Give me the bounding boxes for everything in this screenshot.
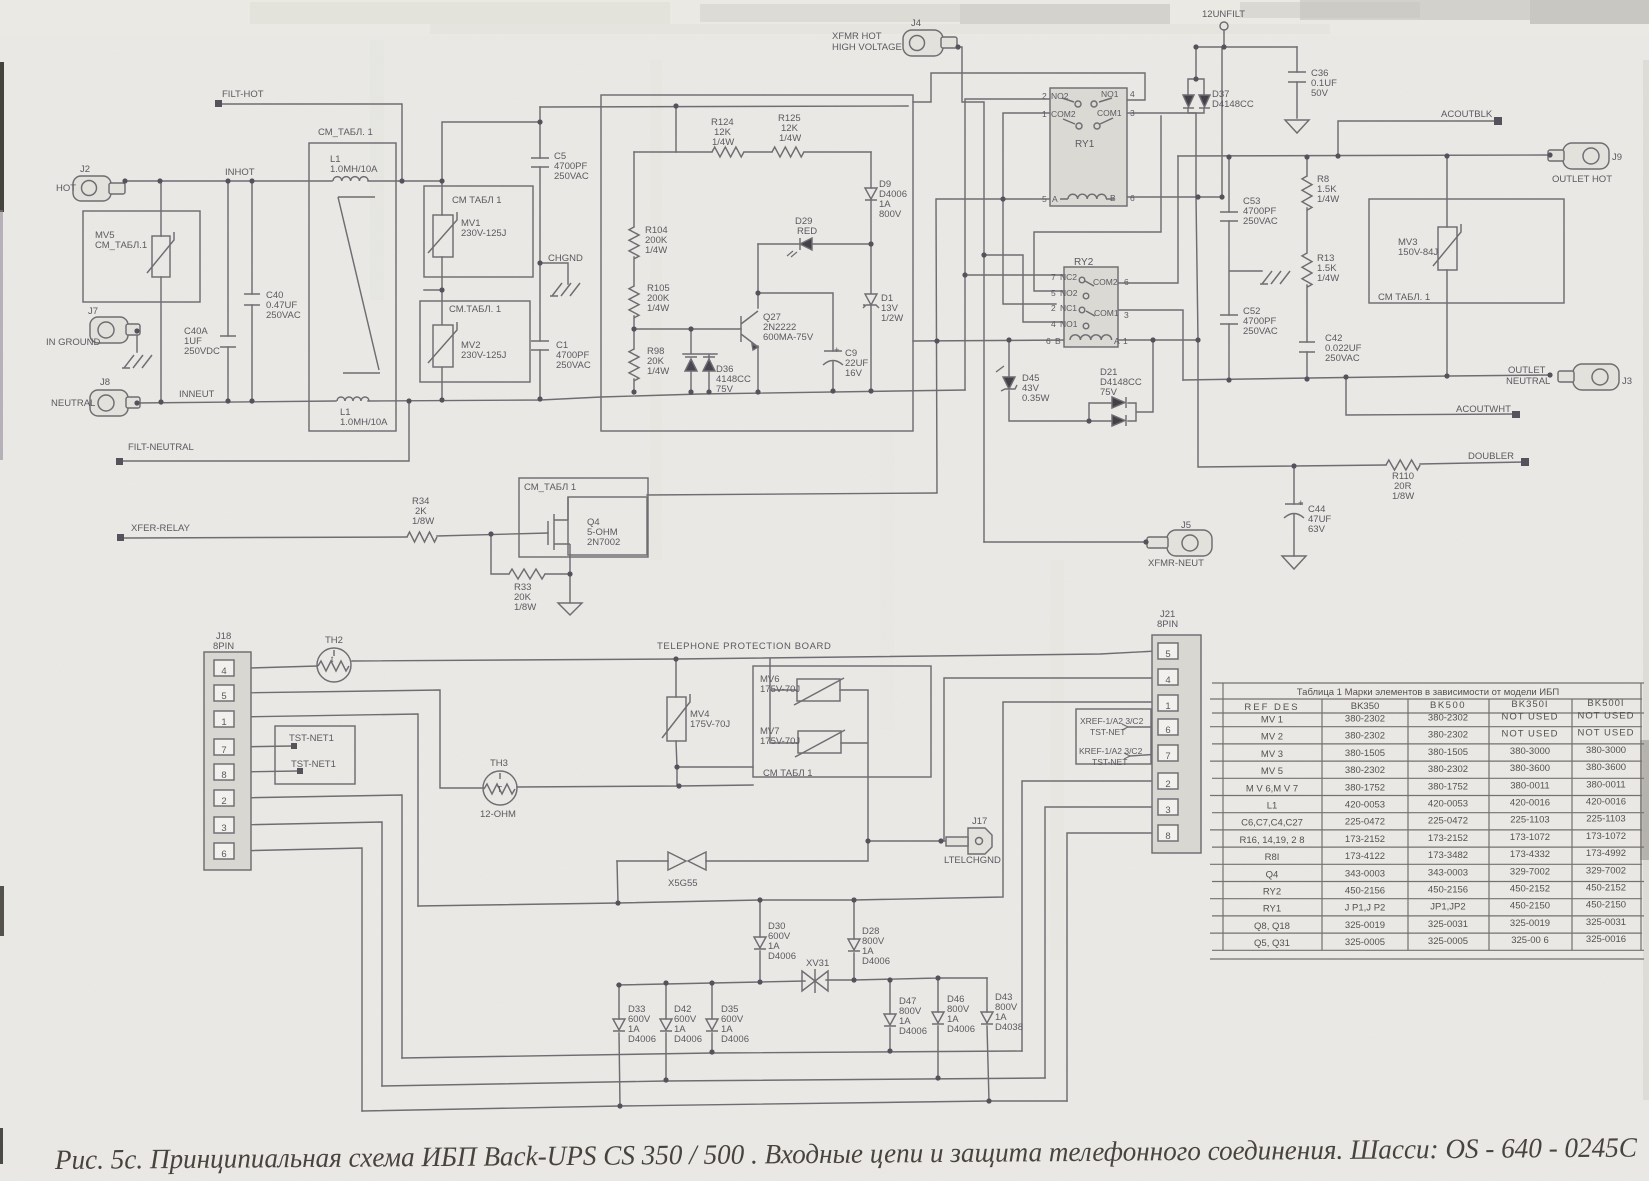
svg-text:Q8, Q18: Q8, Q18 xyxy=(1254,921,1290,932)
svg-text:KREF-1/A2 3/C2: KREF-1/A2 3/C2 xyxy=(1079,746,1143,756)
svg-text:450-2156: 450-2156 xyxy=(1345,886,1385,897)
svg-text:420-0016: 420-0016 xyxy=(1586,797,1626,808)
svg-text:380-3600: 380-3600 xyxy=(1510,763,1550,774)
svg-text:СМ_ТАБЛ 1: СМ_ТАБЛ 1 xyxy=(524,482,576,493)
svg-text:NC2: NC2 xyxy=(1060,272,1077,282)
svg-text:600MA-75V: 600MA-75V xyxy=(763,332,814,343)
svg-text:380-2302: 380-2302 xyxy=(1428,730,1468,741)
svg-text:380-1505: 380-1505 xyxy=(1428,747,1468,758)
svg-text:1.0MH/10A: 1.0MH/10A xyxy=(340,417,388,428)
svg-text:L1: L1 xyxy=(1267,801,1278,812)
svg-text:230V-125J: 230V-125J xyxy=(461,228,507,239)
svg-text:СМ_ТАБЛ.1: СМ_ТАБЛ.1 xyxy=(95,240,147,251)
svg-text:NOT USED: NOT USED xyxy=(1502,729,1559,740)
svg-text:RED: RED xyxy=(797,226,817,237)
svg-text:СМ ТАБЛ 1: СМ ТАБЛ 1 xyxy=(763,768,813,779)
svg-text:IN GROUND: IN GROUND xyxy=(46,337,101,348)
svg-text:4: 4 xyxy=(1051,319,1056,329)
svg-text:A: A xyxy=(1114,336,1120,346)
svg-text:380-3000: 380-3000 xyxy=(1586,745,1626,756)
svg-text:ACOUTBLK: ACOUTBLK xyxy=(1441,109,1493,120)
svg-text:0.35W: 0.35W xyxy=(1022,393,1049,404)
svg-text:B: B xyxy=(1055,336,1061,346)
svg-text:TH3: TH3 xyxy=(490,758,508,769)
svg-text:325-0005: 325-0005 xyxy=(1345,937,1385,948)
svg-text:1: 1 xyxy=(1123,336,1128,346)
svg-text:M V 6,M V 7: M V 6,M V 7 xyxy=(1246,783,1298,794)
svg-text:230V-125J: 230V-125J xyxy=(461,350,507,361)
svg-text:C6,C7,C4,C27: C6,C7,C4,C27 xyxy=(1241,818,1303,829)
svg-text:HOT: HOT xyxy=(56,183,76,194)
svg-text:8: 8 xyxy=(221,770,226,781)
svg-text:3: 3 xyxy=(1165,805,1170,816)
svg-text:NOT USED: NOT USED xyxy=(1502,712,1559,723)
svg-text:СМ.ТАБЛ. 1: СМ.ТАБЛ. 1 xyxy=(449,304,501,315)
svg-text:450-2156: 450-2156 xyxy=(1428,885,1468,896)
svg-text:1/4W: 1/4W xyxy=(647,303,669,314)
svg-text:СМ ТАБЛ. 1: СМ ТАБЛ. 1 xyxy=(1378,292,1430,303)
svg-text:75V: 75V xyxy=(1100,387,1118,398)
svg-text:BK350I: BK350I xyxy=(1511,699,1548,710)
svg-text:380-0011: 380-0011 xyxy=(1586,779,1625,790)
svg-text:2N7002: 2N7002 xyxy=(587,537,620,548)
svg-text:250VAC: 250VAC xyxy=(554,171,589,182)
svg-text:1: 1 xyxy=(1042,109,1047,119)
svg-text:2: 2 xyxy=(1051,303,1056,313)
svg-text:173-3482: 173-3482 xyxy=(1428,850,1468,861)
svg-text:7: 7 xyxy=(1051,272,1056,282)
svg-text:175V-70J: 175V-70J xyxy=(760,684,800,695)
svg-text:250VAC: 250VAC xyxy=(1243,216,1278,227)
svg-text:R8I: R8I xyxy=(1265,852,1280,863)
svg-text:XREF-1/A2 3/C2: XREF-1/A2 3/C2 xyxy=(1080,716,1144,726)
svg-text:325-0016: 325-0016 xyxy=(1586,934,1626,945)
svg-text:250VAC: 250VAC xyxy=(266,310,301,321)
svg-text:173-4122: 173-4122 xyxy=(1345,851,1385,862)
svg-text:450-2152: 450-2152 xyxy=(1586,883,1626,894)
svg-text:450-2150: 450-2150 xyxy=(1586,900,1626,911)
svg-text:J2: J2 xyxy=(80,164,90,175)
svg-text:D4006: D4006 xyxy=(674,1034,702,1045)
svg-text:NOT USED: NOT USED xyxy=(1578,728,1635,739)
svg-text:T: T xyxy=(497,784,502,794)
svg-text:8PIN: 8PIN xyxy=(1157,619,1178,630)
svg-text:325-0019: 325-0019 xyxy=(1510,918,1550,929)
svg-text:REF DES: REF DES xyxy=(1244,702,1299,713)
svg-text:J5: J5 xyxy=(1181,520,1191,531)
svg-text:XV31: XV31 xyxy=(806,958,829,969)
svg-text:1/4W: 1/4W xyxy=(779,133,801,144)
svg-text:225-0472: 225-0472 xyxy=(1345,817,1385,828)
svg-text:3: 3 xyxy=(1124,310,1129,320)
svg-text:XFER-RELAY: XFER-RELAY xyxy=(131,523,191,534)
svg-text:6: 6 xyxy=(1165,725,1170,736)
svg-text:Q5, Q31: Q5, Q31 xyxy=(1254,938,1290,949)
svg-text:12UNFILT: 12UNFILT xyxy=(1202,9,1245,20)
svg-text:6: 6 xyxy=(221,849,226,860)
svg-text:J3: J3 xyxy=(1622,376,1632,387)
svg-text:380-1752: 380-1752 xyxy=(1345,782,1385,793)
svg-text:343-0003: 343-0003 xyxy=(1345,868,1385,879)
svg-text:225-0472: 225-0472 xyxy=(1428,816,1468,827)
svg-text:450-2150: 450-2150 xyxy=(1510,901,1550,912)
svg-text:380-2302: 380-2302 xyxy=(1428,713,1468,724)
svg-text:TST-NET: TST-NET xyxy=(1090,727,1125,737)
svg-text:D4006: D4006 xyxy=(947,1024,975,1035)
svg-text:MV 2: MV 2 xyxy=(1261,732,1283,743)
svg-text:225-1103: 225-1103 xyxy=(1510,815,1549,826)
svg-text:4: 4 xyxy=(1130,89,1135,99)
svg-text:2: 2 xyxy=(1165,779,1170,790)
svg-text:OUTLET HOT: OUTLET HOT xyxy=(1552,174,1612,185)
svg-text:175V-70J: 175V-70J xyxy=(690,719,730,730)
svg-text:12-OHM: 12-OHM xyxy=(480,809,516,820)
svg-text:380-3000: 380-3000 xyxy=(1510,746,1550,757)
svg-text:J P1,J P2: J P1,J P2 xyxy=(1345,903,1386,914)
svg-text:7: 7 xyxy=(1165,751,1170,762)
svg-text:325-0031: 325-0031 xyxy=(1428,919,1468,930)
svg-text:380-2302: 380-2302 xyxy=(1345,714,1385,725)
svg-text:BK350: BK350 xyxy=(1351,701,1380,712)
svg-text:8PIN: 8PIN xyxy=(213,641,234,652)
svg-text:D4006: D4006 xyxy=(899,1026,927,1037)
svg-text:175V-70J: 175V-70J xyxy=(760,736,800,747)
svg-text:1/8W: 1/8W xyxy=(514,602,536,613)
svg-text:NO2: NO2 xyxy=(1060,288,1078,298)
svg-text:TELEPHONE PROTECTION BOARD: TELEPHONE PROTECTION BOARD xyxy=(657,641,831,652)
svg-text:5: 5 xyxy=(1042,194,1047,204)
svg-text:DOUBLER: DOUBLER xyxy=(1468,451,1514,462)
svg-text:6: 6 xyxy=(1130,193,1135,203)
svg-text:NOT USED: NOT USED xyxy=(1578,711,1635,722)
svg-text:1/8W: 1/8W xyxy=(412,516,434,527)
svg-text:1/4W: 1/4W xyxy=(1317,273,1339,284)
svg-text:NO1: NO1 xyxy=(1101,89,1119,99)
svg-text:RY1: RY1 xyxy=(1263,904,1281,915)
svg-text:COM2: COM2 xyxy=(1051,109,1076,119)
svg-text:75V: 75V xyxy=(716,384,734,395)
svg-text:16V: 16V xyxy=(845,368,863,379)
svg-text:NO1: NO1 xyxy=(1060,319,1078,329)
svg-text:LTELCHGND: LTELCHGND xyxy=(944,855,1001,866)
svg-text:+: + xyxy=(1298,498,1304,509)
svg-text:TH2: TH2 xyxy=(325,635,343,646)
svg-text:8: 8 xyxy=(1165,831,1170,842)
svg-text:420-0053: 420-0053 xyxy=(1345,800,1385,811)
svg-text:380-2302: 380-2302 xyxy=(1428,764,1468,775)
svg-text:6: 6 xyxy=(1046,336,1051,346)
svg-text:250VAC: 250VAC xyxy=(556,360,591,371)
svg-text:325-0031: 325-0031 xyxy=(1586,917,1626,928)
svg-text:A: A xyxy=(1052,194,1058,204)
svg-text:MV 5: MV 5 xyxy=(1261,766,1283,777)
svg-text:HIGH VOLTAGE: HIGH VOLTAGE xyxy=(832,42,902,53)
svg-text:B: B xyxy=(1110,193,1116,203)
svg-text:173-2152: 173-2152 xyxy=(1345,834,1385,845)
svg-text:173-4332: 173-4332 xyxy=(1510,849,1550,860)
svg-text:ACOUTWHT: ACOUTWHT xyxy=(1456,404,1511,415)
svg-text:173-2152: 173-2152 xyxy=(1428,833,1468,844)
svg-text:4: 4 xyxy=(1165,675,1170,686)
svg-text:250VAC: 250VAC xyxy=(1243,326,1278,337)
svg-text:2: 2 xyxy=(1042,91,1047,101)
svg-text:5: 5 xyxy=(221,691,226,702)
svg-text:R16, 14,19, 2 8: R16, 14,19, 2 8 xyxy=(1240,835,1305,846)
svg-text:D4006: D4006 xyxy=(862,956,890,967)
svg-text:NEUTRAL: NEUTRAL xyxy=(1506,376,1550,387)
svg-text:173-1072: 173-1072 xyxy=(1510,832,1550,843)
svg-text:329-7002: 329-7002 xyxy=(1586,865,1626,876)
svg-text:RY1: RY1 xyxy=(1075,139,1095,150)
svg-text:1/4W: 1/4W xyxy=(1317,194,1339,205)
svg-text:63V: 63V xyxy=(1308,524,1326,535)
svg-text:173-1072: 173-1072 xyxy=(1586,831,1626,842)
svg-text:450-2152: 450-2152 xyxy=(1510,884,1550,895)
svg-text:INNEUT: INNEUT xyxy=(179,389,215,400)
svg-text:NO2: NO2 xyxy=(1051,91,1069,101)
svg-text:D4038: D4038 xyxy=(995,1022,1023,1033)
svg-text:173-4992: 173-4992 xyxy=(1586,848,1626,859)
svg-text:325-0005: 325-0005 xyxy=(1428,936,1468,947)
svg-text:380-0011: 380-0011 xyxy=(1510,780,1549,791)
svg-text:1/4W: 1/4W xyxy=(647,366,669,377)
svg-text:50V: 50V xyxy=(1311,88,1329,99)
svg-text:MV 3: MV 3 xyxy=(1261,749,1283,760)
svg-text:X5G55: X5G55 xyxy=(668,878,698,889)
svg-text:+: + xyxy=(834,345,840,356)
svg-text:2: 2 xyxy=(221,796,226,807)
svg-text:343-0003: 343-0003 xyxy=(1428,867,1468,878)
svg-text:1/4W: 1/4W xyxy=(645,245,667,256)
svg-text:325-0019: 325-0019 xyxy=(1345,920,1385,931)
svg-text:J17: J17 xyxy=(972,816,987,827)
svg-text:150V-84J: 150V-84J xyxy=(1398,247,1438,258)
svg-text:СМ ТАБЛ 1: СМ ТАБЛ 1 xyxy=(452,195,502,206)
svg-text:380-1752: 380-1752 xyxy=(1428,781,1468,792)
svg-text:380-3600: 380-3600 xyxy=(1586,762,1626,773)
svg-text:1: 1 xyxy=(221,717,226,728)
svg-text:325-00 6: 325-00 6 xyxy=(1511,935,1549,946)
svg-text:J9: J9 xyxy=(1612,152,1622,163)
svg-text:XFMR HOT: XFMR HOT xyxy=(832,31,882,42)
svg-text:329-7002: 329-7002 xyxy=(1510,866,1550,877)
svg-text:Таблица 1 Марки элементов в з: Таблица 1 Марки элементов в зависимости … xyxy=(1297,687,1560,698)
svg-text:TST-NET1: TST-NET1 xyxy=(289,733,334,744)
svg-text:250VAC: 250VAC xyxy=(1325,353,1360,364)
svg-text:TST-NET1: TST-NET1 xyxy=(291,759,336,770)
svg-text:380-2302: 380-2302 xyxy=(1345,731,1385,742)
svg-text:Q4: Q4 xyxy=(1266,869,1279,880)
svg-text:4: 4 xyxy=(221,666,226,677)
svg-text:J7: J7 xyxy=(88,306,98,317)
svg-text:RY2: RY2 xyxy=(1263,887,1281,898)
svg-text:1/4W: 1/4W xyxy=(712,137,734,148)
svg-text:1/8W: 1/8W xyxy=(1392,491,1414,502)
svg-text:250VDC: 250VDC xyxy=(184,346,220,357)
svg-text:225-1103: 225-1103 xyxy=(1586,814,1625,825)
svg-text:D4006: D4006 xyxy=(721,1034,749,1045)
svg-text:J4: J4 xyxy=(911,18,921,29)
svg-text:COM2: COM2 xyxy=(1093,277,1118,287)
svg-text:BK500I: BK500I xyxy=(1587,698,1624,709)
svg-text:3: 3 xyxy=(1130,108,1135,118)
svg-text:D4006: D4006 xyxy=(768,951,796,962)
svg-text:RY2: RY2 xyxy=(1074,257,1094,268)
svg-text:1.0MH/10A: 1.0MH/10A xyxy=(330,164,378,175)
svg-text:NEUTRAL: NEUTRAL xyxy=(51,398,95,409)
svg-text:6: 6 xyxy=(1124,277,1129,287)
svg-text:1/2W: 1/2W xyxy=(881,313,903,324)
svg-text:COM1: COM1 xyxy=(1097,108,1122,118)
svg-text:INHOT: INHOT xyxy=(225,167,255,178)
svg-text:D4006: D4006 xyxy=(628,1034,656,1045)
svg-text:420-0016: 420-0016 xyxy=(1510,798,1550,809)
svg-text:FILT-NEUTRAL: FILT-NEUTRAL xyxy=(128,442,194,453)
svg-text:800V: 800V xyxy=(879,209,902,220)
svg-text:СМ_ТАБЛ. 1: СМ_ТАБЛ. 1 xyxy=(318,127,373,138)
svg-text:3: 3 xyxy=(221,823,226,834)
svg-text:5: 5 xyxy=(1051,288,1056,298)
svg-text:CHGND: CHGND xyxy=(548,253,583,264)
svg-text:1: 1 xyxy=(1165,701,1170,712)
svg-text:COM1: COM1 xyxy=(1094,308,1119,318)
svg-text:NC1: NC1 xyxy=(1060,303,1077,313)
svg-text:380-1505: 380-1505 xyxy=(1345,748,1385,759)
svg-text:380-2302: 380-2302 xyxy=(1345,765,1385,776)
svg-text:J8: J8 xyxy=(100,377,110,388)
svg-text:BK500: BK500 xyxy=(1430,700,1466,711)
svg-text:D4148CC: D4148CC xyxy=(1212,99,1254,110)
svg-text:420-0053: 420-0053 xyxy=(1428,799,1468,810)
svg-text:7: 7 xyxy=(221,745,226,756)
svg-text:JP1,JP2: JP1,JP2 xyxy=(1430,902,1465,913)
svg-text:OUTLET: OUTLET xyxy=(1508,365,1546,376)
svg-text:MV 1: MV 1 xyxy=(1261,715,1283,726)
svg-text:5: 5 xyxy=(1165,649,1170,660)
svg-text:FILT-HOT: FILT-HOT xyxy=(222,89,264,100)
svg-text:TST-NET: TST-NET xyxy=(1092,757,1127,767)
svg-text:XFMR-NEUT: XFMR-NEUT xyxy=(1148,558,1204,569)
